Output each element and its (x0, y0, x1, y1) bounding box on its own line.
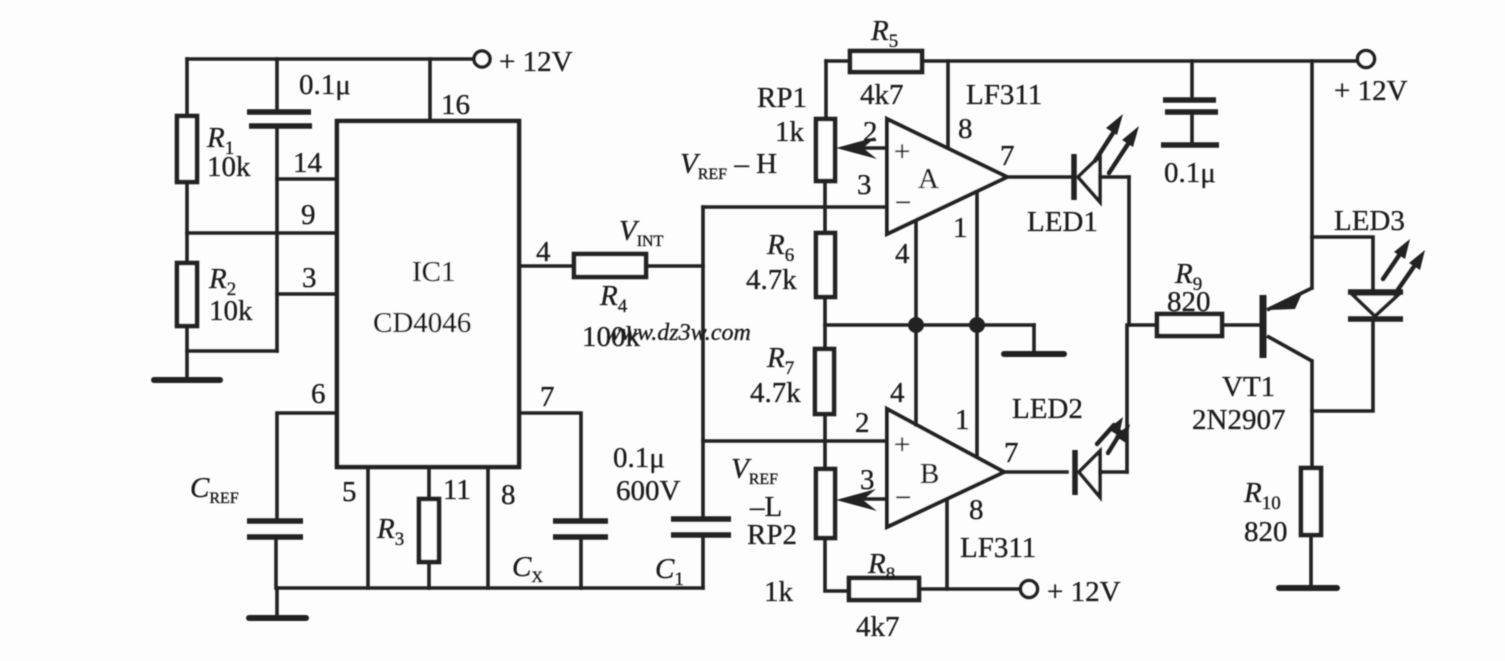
wire R2 top stem (185, 233, 189, 263)
svg-text:RP2: RP2 (747, 519, 797, 551)
svg-text:CX: CX (512, 551, 543, 586)
wire top-right +12V rail (826, 59, 1357, 63)
wire bottom rail (277, 586, 703, 590)
svg-text:R3: R3 (376, 513, 404, 550)
wire R10 bottom (1309, 535, 1313, 586)
wire pin 5 stub (366, 467, 370, 588)
wire op-amp A pin 4 stub (914, 221, 918, 325)
svg-text:8: 8 (501, 479, 516, 511)
wire VINT vertical (701, 207, 705, 519)
svg-text:4.7k: 4.7k (746, 264, 797, 296)
wire vertical cap to R2-bottom line (275, 129, 279, 351)
wire R1 bottom to pin9 node (185, 182, 189, 233)
svg-text:C1: C1 (655, 553, 684, 590)
svg-text:4: 4 (895, 238, 910, 270)
svg-text:IC1: IC1 (412, 256, 456, 288)
svg-text:1k: 1k (764, 576, 794, 608)
wire pin 6 stub and down to Cref (277, 413, 337, 519)
terminal +12V top-right (1358, 51, 1375, 68)
wire pin 14 line (277, 177, 337, 181)
svg-text:R8: R8 (867, 548, 895, 585)
transistor VT1 2N2907 (1260, 295, 1267, 358)
svg-text:0.1μ: 0.1μ (613, 442, 665, 474)
svg-text:R7: R7 (766, 342, 794, 379)
svg-text:8: 8 (969, 494, 984, 526)
LED3 (1348, 289, 1403, 295)
LED2 (1072, 450, 1078, 495)
svg-text:4k7: 4k7 (860, 79, 904, 111)
LED2 light arrows (1097, 425, 1114, 444)
svg-text:4: 4 (890, 377, 905, 409)
wire op-amp A pin 8 stub (946, 61, 950, 148)
capacitor C_REF (247, 518, 303, 524)
ground (bottom right) (1279, 585, 1337, 591)
wire collector down (1310, 361, 1314, 468)
svg-text:3: 3 (857, 169, 872, 201)
svg-text:4k7: 4k7 (856, 611, 900, 643)
wire op-amp B pin 1 stub (975, 325, 979, 457)
svg-text:14: 14 (293, 147, 323, 179)
resistor R1 (177, 116, 197, 182)
resistor R3 on pin 11 (427, 467, 431, 499)
wire R4 to VINT vertical (646, 264, 703, 268)
wire op-amp A output (1007, 175, 1072, 179)
potentiometer RP1 (816, 119, 835, 181)
wire emitter up to +12V rail (1310, 61, 1314, 288)
IC IC1 CD4046 (337, 121, 519, 467)
svg-text:+: + (894, 429, 910, 461)
wire RP1 bottom stem (823, 181, 827, 233)
wire op-amp B pin 4 stub (914, 325, 918, 425)
wire pin 8 stub (486, 467, 490, 588)
svg-text:−: − (895, 187, 911, 219)
svg-text:B: B (920, 458, 939, 490)
svg-text:600V: 600V (616, 475, 681, 507)
wire pin 9 line (187, 231, 337, 235)
RP2 wiper arrow (858, 497, 887, 501)
svg-text:CD4046: CD4046 (373, 307, 471, 339)
LED1 (1071, 154, 1077, 200)
wire RP2 bottom elbow (825, 538, 849, 591)
wire pin 16 stub (428, 59, 432, 121)
resistor R6 (816, 233, 835, 297)
ground (left, below R2) (185, 351, 189, 378)
svg-text:6: 6 (311, 378, 326, 410)
svg-text:8: 8 (958, 113, 973, 145)
svg-text:5: 5 (342, 476, 357, 508)
resistor R7 (815, 349, 834, 414)
svg-text:16: 16 (441, 89, 470, 121)
ground (mid, right of op-amps) (1032, 325, 1036, 352)
wire R9 to base (1222, 323, 1263, 327)
svg-text:+ 12V: + 12V (499, 46, 573, 78)
svg-text:3: 3 (302, 262, 317, 294)
LED1 light arrows (1095, 133, 1113, 161)
svg-text:3: 3 (860, 464, 875, 496)
wire op-amp A pin 1 stub (975, 192, 979, 325)
resistor R2 (177, 263, 197, 326)
svg-text:LF311: LF311 (966, 79, 1042, 111)
capacitor C_X (553, 518, 608, 524)
svg-text:2: 2 (855, 407, 870, 439)
RP1 wiper arrow (858, 146, 887, 150)
svg-text:A: A (918, 163, 939, 195)
LED3 light arrows (1383, 254, 1400, 279)
svg-text:2: 2 (863, 116, 878, 148)
capacitor C1 (671, 516, 731, 522)
svg-text:R10: R10 (1243, 477, 1281, 514)
resistor R4 (574, 254, 646, 277)
node junction dot B (969, 317, 985, 333)
terminal +12V top-left (474, 51, 490, 67)
op-amp U2 B (LF311) (887, 409, 1004, 527)
wire op-amp B pin 8 stub (945, 500, 949, 589)
wire pin 7 stub and down to Cx (519, 413, 581, 519)
svg-text:R6: R6 (766, 229, 794, 266)
wire op-amp B output (1004, 470, 1067, 474)
svg-text:0.1μ: 0.1μ (299, 69, 351, 101)
wire R6 bottom stem (823, 297, 827, 349)
svg-text:LED2: LED2 (1012, 393, 1083, 425)
wire LED2 up to R9 node (1125, 325, 1129, 472)
svg-text:VINT: VINT (619, 215, 664, 250)
svg-text:1: 1 (955, 404, 970, 436)
svg-text:R5: R5 (870, 15, 898, 52)
svg-text:CREF: CREF (190, 472, 239, 507)
wire R2 bottom (187, 326, 277, 351)
resistor R9 (1129, 323, 1157, 327)
svg-text:−: − (895, 482, 911, 514)
wire R7 bottom stem (823, 414, 827, 469)
capacitor 0.1u top-right (1190, 61, 1194, 97)
node junction dot A (908, 317, 924, 333)
wire pin 4 stub (519, 264, 574, 268)
svg-text:9: 9 (301, 199, 316, 231)
wire R8 to +12V terminal (919, 587, 1020, 591)
svg-text:1k: 1k (775, 116, 805, 148)
potentiometer RP2 (816, 469, 835, 538)
ground (bottom left rail) (275, 588, 279, 615)
svg-text:www.dz3w.com: www.dz3w.com (605, 320, 751, 346)
resistor R10 (1301, 468, 1321, 535)
resistor R8 (849, 578, 919, 600)
svg-text:7: 7 (1004, 437, 1019, 469)
svg-text:4: 4 (536, 236, 551, 268)
svg-text:VREF: VREF (731, 453, 778, 488)
svg-text:820: 820 (1244, 516, 1288, 548)
wire VINT to op-amp A minus input (703, 205, 887, 209)
capacitor 0.1u top-left (275, 59, 279, 109)
svg-text:1: 1 (953, 212, 968, 244)
svg-text:0.1μ: 0.1μ (1164, 157, 1216, 189)
wire R1 top stem (185, 59, 189, 116)
svg-text:+ 12V: + 12V (1047, 576, 1121, 608)
wire LED1 down to R9 node (1127, 177, 1131, 325)
svg-text:820: 820 (1167, 286, 1211, 318)
wire top-left +12V rail (187, 57, 473, 61)
svg-text:2N2907: 2N2907 (1192, 404, 1285, 436)
svg-text:4.7k: 4.7k (750, 377, 801, 409)
svg-text:RP1: RP1 (757, 82, 807, 114)
wire branch to LED3 anode (1312, 237, 1373, 291)
svg-text:VREF – H: VREF – H (680, 148, 777, 183)
svg-text:R4: R4 (599, 280, 628, 317)
svg-text:+ 12V: + 12V (1334, 75, 1408, 107)
svg-text:7: 7 (1000, 140, 1015, 172)
wire VREF-L line to op-amp B plus input (703, 439, 887, 443)
svg-text:11: 11 (443, 474, 471, 506)
svg-text:10k: 10k (209, 295, 253, 327)
svg-text:LED1: LED1 (1027, 206, 1098, 238)
svg-text:+: + (894, 136, 910, 168)
resistor R5 (850, 51, 922, 72)
wire mid rail (pins 1,4 to ground) (825, 323, 1034, 327)
svg-text:7: 7 (540, 381, 555, 413)
wire pin 3 line (277, 292, 337, 296)
op-amp U1 A (LF311) (887, 119, 1007, 234)
svg-text:10k: 10k (207, 151, 251, 183)
terminal +12V bottom (1021, 581, 1038, 598)
wire RP1 top stem (824, 61, 828, 119)
svg-text:LF311: LF311 (960, 532, 1036, 564)
svg-text:LED3: LED3 (1334, 205, 1405, 237)
svg-text:VT1: VT1 (1222, 371, 1275, 403)
